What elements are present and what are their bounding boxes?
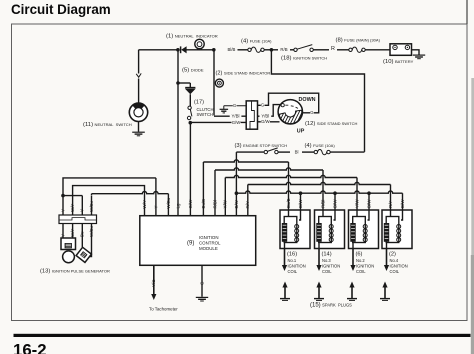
svg-text:R: R [331,46,335,52]
spark plug 3 [347,282,357,301]
coil (16) pin labels [286,198,303,208]
caption (6) No.2 ignition coil [356,252,375,274]
svg-text:IGNITION: IGNITION [356,264,374,269]
wire engine stop row [236,151,264,153]
wire Y/W trigger bus (to No.2 coil) [225,175,357,216]
svg-text:Bu: Bu [80,231,85,237]
svg-text:Y/Bl: Y/Bl [232,114,240,119]
svg-text:Y/G: Y/G [151,279,156,287]
svg-text:IGNITION: IGNITION [390,264,408,269]
wire [313,49,329,51]
wire side stand indicator drop [213,50,215,116]
caption (2) No.4 ignition coil [389,252,408,274]
svg-text:G/W: G/W [261,119,271,124]
svg-text:IGNITION: IGNITION [322,264,340,269]
node diode D1 anode junction [176,48,180,52]
svg-text:(9): (9) [187,241,194,247]
wire G row into connector [224,106,246,109]
wire G/W to ICM [189,123,191,216]
wire Y/Bl row to side stand switch [258,105,281,117]
pulse generator pickup coil A [61,238,76,250]
lamp (2) side stand indicator [215,79,223,87]
svg-text:To Tachometer: To Tachometer [149,307,178,312]
svg-text:B/W: B/W [366,199,371,208]
caption (16) No.1 ignition coil [287,252,306,274]
svg-text:W/Y: W/Y [70,229,75,237]
svg-text:COIL: COIL [356,269,366,274]
svg-text:COIL: COIL [390,269,400,274]
svg-text:R/Bl: R/Bl [212,200,217,208]
pulse generator pickup coil B [76,247,91,262]
wire [273,49,278,51]
svg-text:R/Y: R/Y [245,201,250,208]
ICM pin labels [142,197,250,208]
PG pin labels above connector [60,201,94,212]
svg-text:No.3: No.3 [322,258,331,263]
wire coil (14) HT lead [316,249,321,272]
svg-text:UP: UP [297,129,305,135]
PG connector pins [63,196,92,215]
wire Bu/B trigger bus (to No.1 coil) [203,160,288,216]
svg-text:W/Bu: W/Bu [89,201,94,212]
ground battery [413,55,425,59]
svg-text:MODULE: MODULE [199,246,218,251]
svg-text:SWITCH: SWITCH [197,112,214,117]
wire [258,121,280,123]
caption (14) No.3 ignition coil [322,252,341,274]
PG pin labels below connector [60,226,94,237]
coil (14) pin labels [320,199,337,208]
svg-text:G/W: G/W [188,199,193,209]
wire [330,151,364,153]
svg-text:G: G [199,281,204,285]
wire G to ground [201,265,203,297]
module (9) ignition control module [140,216,256,266]
svg-text:Bu/B: Bu/B [286,198,291,208]
node B/W bus junction [235,191,239,195]
svg-text:IGNITION: IGNITION [199,235,219,240]
wire label R/B [280,47,289,52]
wire B/W bus to coils [236,191,402,210]
connector chevron on neutral wire [136,73,141,77]
svg-text:B/W: B/W [234,199,239,208]
svg-text:IGNITION: IGNITION [288,264,306,269]
svg-text:COIL: COIL [288,269,298,274]
wire [63,195,82,197]
svg-text:(16): (16) [287,252,297,258]
wire Y/G to tachometer [151,265,156,300]
svg-text:No.2: No.2 [356,258,365,263]
svg-text:COIL: COIL [322,269,332,274]
spark plug 4 [380,282,390,301]
svg-text:W/Y: W/Y [70,204,75,212]
wire Y/Bl row into connector [214,115,246,117]
wire [278,151,290,153]
ground neutral switch [132,132,145,136]
wire neutral switch drop [138,50,140,103]
ground side stand G [220,109,229,113]
svg-text:(17): (17) [194,100,204,106]
svg-text:DOWN: DOWN [299,97,316,103]
switch (3) engine stop switch [264,148,278,154]
svg-text:W/Bu: W/Bu [89,226,94,237]
coil (2) pin labels [388,199,405,208]
ignition coil (14) No.3 [315,210,345,249]
wire coil (6) HT lead [350,249,355,272]
svg-text:(2): (2) [389,252,396,258]
ignition coil (6) No.2 [349,210,379,249]
wire battery to ground [412,50,420,55]
node clutch switch output [189,121,193,125]
wire G row to side stand switch [258,93,319,113]
wire coil (2) HT lead [384,249,389,272]
wire R/Bl trigger bus (to No.3 coil) [215,168,323,216]
wire PG pin2 W/Y to ICM W/Y [73,186,145,216]
wire R/Y trigger bus (to No.4 coil) [248,182,391,216]
node B junction to side stand indicator [212,48,216,52]
svg-text:Y: Y [60,209,65,212]
page footer bar [14,334,471,337]
svg-text:Circuit Diagram: Circuit Diagram [11,2,111,17]
ignition coil (16) No.1 [280,210,310,249]
node junction to lower row feed [270,48,274,52]
fuse (4) 10A top [248,47,264,52]
switch (11) neutral switch [129,103,147,122]
switch (17) clutch switch [187,106,191,120]
PG wires below connector [63,224,92,257]
node diode D5 branch [176,81,180,85]
wire [337,49,351,51]
wire to battery [365,49,390,51]
lamp (1) neutral indicator [195,39,204,50]
svg-text:Y/Bl: Y/Bl [261,114,269,119]
node PG pin1 junction [61,194,65,198]
wire label Bl [293,149,299,154]
wire to diode (5) [178,82,190,84]
spark plug 2 [314,282,324,301]
svg-text:B/W: B/W [332,199,337,208]
wire B/W vertical (engine stop / ICM / coils) [235,152,237,216]
wire [264,49,271,51]
diode (5) [185,83,196,106]
fuse (8) main fuse 30A [349,47,365,52]
svg-text:R/Bl: R/Bl [320,200,325,208]
svg-text:Bl: Bl [295,150,299,155]
ground ICM G [196,297,208,301]
svg-text:Bl/B: Bl/B [228,47,236,52]
svg-text:R/B: R/B [280,47,287,52]
wire Lg line (top row to ICM) [177,50,179,216]
wire feed from top row to engine stop row [271,50,364,152]
svg-text:CONTROL: CONTROL [199,241,221,246]
svg-text:Lg: Lg [175,203,180,208]
wire neutral switch to ground [138,122,140,132]
svg-text:(6): (6) [356,252,363,258]
wire W/Bu run [92,191,169,193]
switch (18) ignition switch [294,45,314,52]
svg-text:B/W: B/W [400,199,405,208]
svg-text:Y/W: Y/W [354,199,359,208]
connector block (side stand switch coupler) [246,101,257,129]
switch (12) side stand switch rotary [270,96,310,128]
svg-text:(14): (14) [322,252,332,258]
battery (10) [390,44,412,56]
wire [302,151,316,153]
wire label Bl/B [226,47,238,52]
svg-text:16-2: 16-2 [13,340,47,354]
svg-text:G/W: G/W [232,120,242,125]
pulse generator rotor [63,251,75,263]
wire PG pin1 Y to ICM Y [63,178,156,196]
wire PG pin4 W/Bu to ICM W/Bu [91,194,93,196]
svg-text:Y: Y [80,209,85,212]
coil (6) pin labels [354,199,371,208]
svg-text:B/W: B/W [298,199,303,208]
svg-text:No.4: No.4 [390,258,399,263]
wire top feed row [139,49,177,51]
PG connector strip [59,215,97,224]
ignition coil (2) No.4 [382,210,412,249]
wire [290,49,294,51]
svg-text:Y: Y [60,234,65,237]
wire G/W row into connector [190,121,246,123]
fuse (4) 10A lower [314,149,330,154]
diode D1 (neutral indicator diode) [181,46,187,53]
svg-text:R/Y: R/Y [388,201,393,208]
svg-text:No.1: No.1 [288,258,297,263]
svg-text:Y/W: Y/W [223,199,228,208]
wire coil (16) HT lead [282,249,287,272]
spark plug 1 [280,282,290,301]
svg-text:Bu/B: Bu/B [201,199,206,209]
